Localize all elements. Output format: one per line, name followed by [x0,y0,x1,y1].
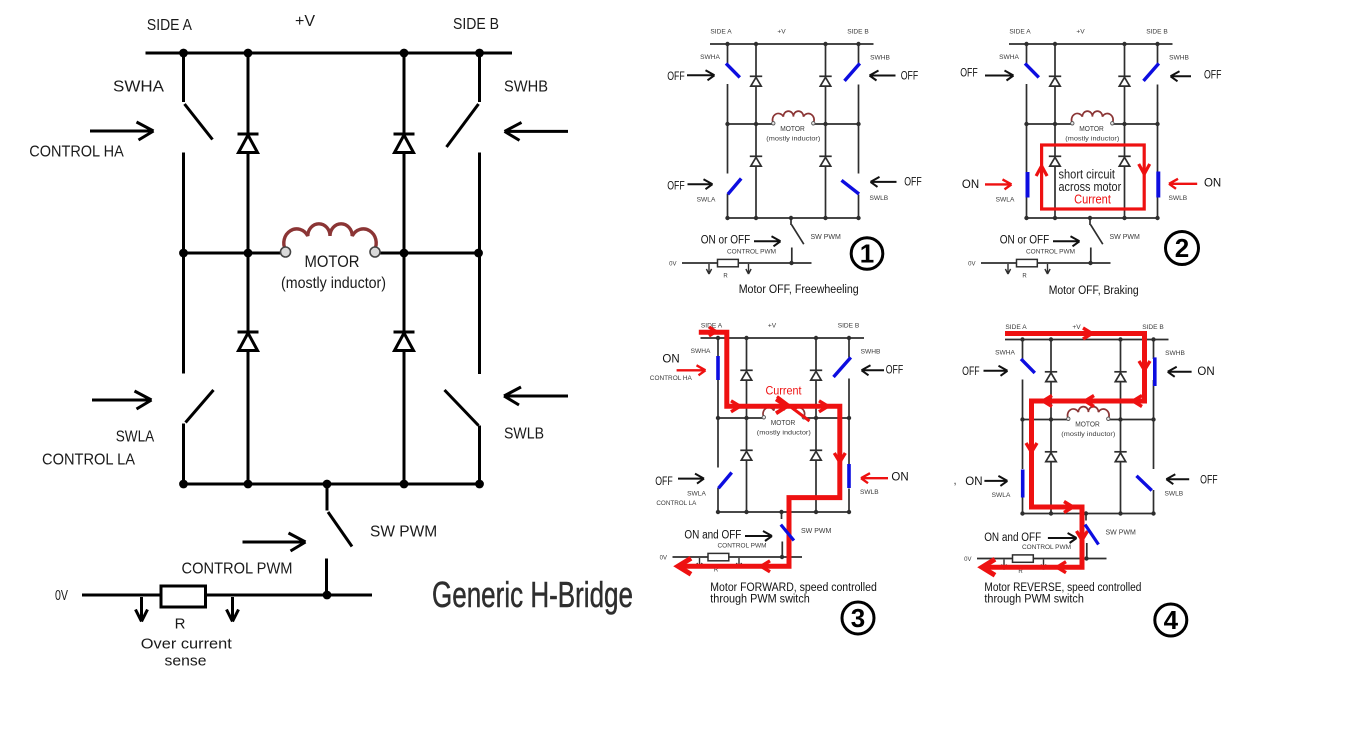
wire SWHA lower to mid rail [182,153,185,254]
svg-text:OFF: OFF [667,71,685,83]
diode D2 upper right [394,133,415,136]
arrow OFF upper right state3 [862,365,885,375]
wire diode column A middle [247,153,250,333]
arrow red mid segment 1 state3 [731,401,740,412]
wire mid rail right [375,252,480,255]
bridge core state 1 [669,29,890,280]
motor terminal left [281,247,291,257]
junction dot bottom rail left [179,480,188,489]
svg-text:+V: +V [295,13,315,30]
switch blade SWLB closed blue state3 [847,464,851,488]
svg-text:SWLA: SWLA [116,429,155,446]
arrow control HB [505,122,569,140]
wire diode column B middle [403,153,406,333]
switch blade SW PWM blue state4 [1085,525,1099,545]
switch SWHB top wire [478,53,481,102]
diode D3 lower left [238,331,259,334]
wire bottom rail [184,483,480,486]
wire SWLB lower [478,426,481,485]
svg-text:ON: ON [891,471,908,483]
svg-text:OFF: OFF [962,366,980,378]
arrow control LA [92,391,152,409]
svg-text:SWLB: SWLB [504,426,544,443]
junction dot top rail at diode A [244,49,253,58]
svg-text:R: R [175,616,186,633]
arrow OFF upper right state1 [870,71,896,81]
junction dot bottom rail PWM tap [323,480,332,489]
switch blade SW PWM state2 [1091,225,1103,245]
svg-text:CONTROL HA: CONTROL HA [29,144,124,161]
switch blade SWHA open blue state4 [1021,359,1035,373]
arrow CONTROL PWM [243,533,306,551]
wire SWHB lower to mid rail [478,153,481,254]
svg-text:OFF: OFF [901,70,919,82]
junction dot bottom rail diode A [244,480,253,489]
wire +V top rail [146,52,513,55]
svg-text:sense: sense [165,654,207,670]
svg-text:Over current: Over current [141,637,232,653]
svg-text:CONTROL HA: CONTROL HA [650,375,693,382]
arrow OFF lower right state1 [871,177,897,187]
switch blade SWHA open blue state1 [726,63,740,77]
svg-text:through PWM switch: through PWM switch [710,592,810,606]
switch blade SWHB open blue state1 [845,63,860,81]
arrow OFF upper left state2 [985,71,1014,81]
arrow CONTROL HA [90,122,154,140]
svg-text:ON: ON [1204,178,1221,190]
motor terminal right [370,247,380,257]
switch blade SWHA closed blue state3 [716,356,720,380]
switch blade SWLA closed blue state2 [1026,172,1030,198]
svg-text:ON: ON [662,354,679,366]
svg-text:SIDE B: SIDE B [453,16,499,33]
arrow ON upper right state4 [1168,367,1192,377]
svg-text:,: , [953,475,956,487]
junction dot mid rail right end [474,249,483,258]
diode D4 lower right [394,331,415,334]
arrow control LB [504,387,568,405]
arrow red mid 2 state4 [1085,396,1094,407]
wire SWLA lower [182,424,185,485]
junction dot mid rail at diode A [244,249,253,258]
svg-text:OFF: OFF [1204,69,1222,81]
junction dot 0V at SW PWM [323,591,332,600]
svg-text:Current: Current [1074,191,1111,206]
wire diode column A lower [247,351,250,485]
switch SW PWM blade [328,512,352,547]
svg-text:1: 1 [860,239,874,269]
svg-text:ON and OFF: ON and OFF [984,532,1041,544]
wire 0V rail left [82,594,161,597]
arrow red down left state4 [1026,443,1037,452]
wire diode column A upper [247,53,250,134]
svg-text:ON and OFF: ON and OFF [684,529,741,541]
arrow red ON lower right state3 [861,473,888,483]
svg-text:CONTROL PWM: CONTROL PWM [182,561,293,578]
svg-text:ON: ON [965,476,982,488]
svg-text:SWHB: SWHB [504,79,548,96]
switch blade SWLA open blue state1 [728,179,741,195]
svg-text:(mostly inductor): (mostly inductor) [281,275,386,292]
switch blade SWLB open blue state4 [1137,476,1152,491]
svg-text:SW PWM: SW PWM [370,524,437,541]
svg-text:SWHA: SWHA [113,79,165,96]
junction dot top rail at diode B [400,49,409,58]
wire SW PWM lower [325,559,328,596]
svg-text:CONTROL LA: CONTROL LA [656,500,697,507]
switch blade SWHB closed blue state4 [1153,357,1157,386]
svg-text:Generic H-Bridge: Generic H-Bridge [432,574,633,615]
svg-text:ON or OFF: ON or OFF [701,234,751,246]
svg-text:OFF: OFF [1200,474,1218,486]
arrow OFF lower left state3 [678,474,704,484]
arrow over current sense left [136,597,148,622]
svg-text:OFF: OFF [667,181,685,193]
arrow red control HA state3 [677,365,706,375]
switch blade SWHA open blue state2 [1025,63,1039,77]
current loop red rectangle state2 [1042,145,1145,209]
arrow red bottom left chevron state3 [761,561,770,572]
diode D1 upper left [238,133,259,136]
motor inductor coil [284,224,376,250]
arrow red bottom mid right state4 [1064,502,1073,513]
arrow red ON lower left state2 [985,179,1012,189]
arrow over current sense right [227,597,239,622]
bridge core state 2 [968,29,1189,280]
arrow OFF lower left state1 [688,179,713,189]
current path red state3 [680,332,840,566]
switch blade SWLB closed blue state2 [1156,172,1160,198]
arrow red mid 3 state4 [1133,396,1142,407]
arrow control pwm state4 [1048,533,1077,543]
svg-text:4: 4 [1164,605,1179,635]
arrow red mid segment 2 state3 [776,399,787,413]
arrow OFF upper left state1 [687,70,715,80]
switch blade SWLB open blue state1 [842,180,860,194]
svg-text:MOTOR: MOTOR [305,253,360,271]
svg-text:3: 3 [851,603,865,633]
svg-text:Motor OFF, Freewheeling: Motor OFF, Freewheeling [739,282,859,296]
wire diode column B lower [403,351,406,485]
svg-text:OFF: OFF [904,177,922,189]
current path red state4 [986,334,1145,568]
wire 0V rail right [206,594,373,597]
circled number 1 [851,238,883,270]
wire diode column B upper [403,53,406,134]
bridge core state 3 [660,323,881,574]
arrow control pwm state3 [745,531,772,541]
arrow red mid 1 state4 [1043,396,1052,407]
switch SWHA blade [185,104,213,140]
junction dot mid rail at diode B [400,249,409,258]
svg-text:ON or OFF: ON or OFF [1000,234,1050,246]
arrow red ON lower right state2 [1169,179,1197,189]
svg-text:CONTROL LA: CONTROL LA [42,452,136,469]
switch blade SWLA closed blue state4 [1021,470,1025,498]
arrow red bottom chevron state4 [1057,562,1066,573]
arrow ON lower left state4 [984,476,1007,486]
svg-text:OFF: OFF [655,476,673,488]
switch SWLA blade [186,390,214,423]
svg-text:SIDE A: SIDE A [147,17,192,34]
junction dot mid rail left end [179,249,188,258]
wire mid rail left [184,252,287,255]
junction dot bottom rail right [475,480,484,489]
switch SWLB top wire [478,253,481,374]
svg-text:ON: ON [962,179,979,191]
svg-text:2: 2 [1175,233,1189,263]
circled number 4 [1155,604,1187,636]
bridge core state 4 [964,324,1185,575]
arrow OFF upper right state2 [1171,71,1192,81]
svg-text:OFF: OFF [886,364,904,376]
junction dot top rail at SWHA [179,49,188,58]
arrow red mid segment 3 state3 [819,401,828,412]
switch blade SW PWM blue state3 [781,525,794,541]
switch SWLA top wire [182,253,185,374]
svg-text:through PWM switch: through PWM switch [984,592,1084,606]
switch SWLB blade [445,390,479,426]
svg-text:0V: 0V [55,588,68,604]
arrow OFF upper left state4 [984,366,1008,376]
switch SW PWM top wire [326,484,329,511]
switch blade SW PWM state1 [792,225,804,245]
arrow red down pwm state4 [1077,531,1088,540]
switch SWHA top wire [182,53,185,102]
arrow control pwm state1 [754,236,781,246]
arrow OFF lower right state4 [1166,474,1189,484]
arrow red up on loop left state2 [1036,166,1047,176]
arrow control pwm state2 [1053,236,1080,246]
junction dot top rail at SWHB [475,49,484,58]
circled number 3 [842,602,874,634]
arrow red down right state4 [1139,361,1150,370]
svg-text:Current: Current [766,386,803,398]
arrow red down right state3 [834,453,845,462]
arrow red top segment state4 [1083,328,1092,339]
svg-text:Motor OFF, Braking: Motor OFF, Braking [1049,283,1139,297]
resistor R body [161,586,206,607]
arrow red end tip state3 [678,558,691,574]
switch blade SWHB open blue state3 [834,357,851,377]
arrow red end tip state4 [982,559,995,575]
pointer line Current state3 [777,397,810,422]
junction dot bottom rail diode B [400,480,409,489]
svg-text:OFF: OFF [960,67,978,79]
switch blade SWLA open blue state3 [718,473,731,489]
switch blade SWHB open blue state2 [1144,63,1159,81]
circled number 2 [1166,232,1199,265]
arrow red top segment state3 [709,327,716,336]
arrow red down on loop right state2 [1139,164,1150,174]
switch SWHB blade [447,104,479,147]
svg-text:ON: ON [1197,366,1214,378]
